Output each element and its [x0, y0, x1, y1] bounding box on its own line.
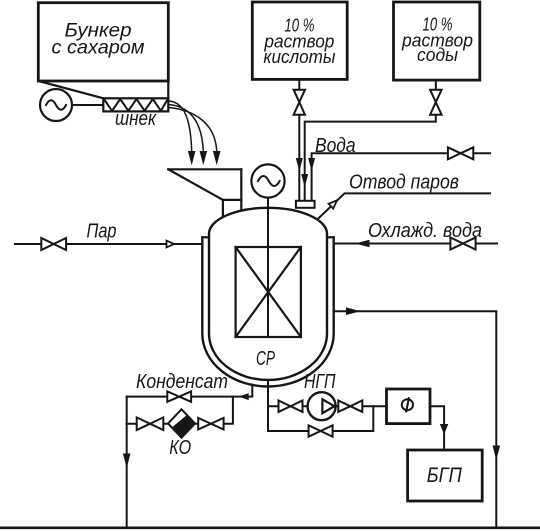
- stirrer (crossed frame): [236, 247, 301, 337]
- soda valve: [430, 90, 442, 115]
- feed nozzle on reactor head: [296, 201, 315, 208]
- feed funnel on reactor: [168, 169, 241, 217]
- condensate stub from jacket: [127, 385, 253, 397]
- jacket top cap left: [202, 236, 209, 238]
- label 10% раствор кислоты: [263, 15, 335, 67]
- sugar discharge stream 1: [169, 101, 196, 165]
- pump outlet valve: [338, 401, 362, 412]
- cooling water line (Охлажд. вода): [334, 243, 497, 245]
- stirrer shaft inside vessel: [267, 207, 269, 337]
- left drain down arrow: [123, 454, 131, 469]
- soda flow arrow: [301, 174, 308, 187]
- condensate flow arrow: [239, 393, 249, 400]
- bottom collector line: [0, 526, 540, 529]
- svg-text:Отвод паров: Отвод паров: [349, 172, 459, 194]
- motor M of screw conveyor: [40, 89, 103, 121]
- svg-text:Пар: Пар: [87, 221, 117, 243]
- jacket outlet line to right drain: [334, 311, 497, 528]
- svg-text:СР: СР: [256, 348, 275, 370]
- svg-text:НГП: НГП: [304, 371, 336, 393]
- acid valve: [294, 90, 305, 115]
- jacket outlet flow arrow: [346, 307, 361, 315]
- check valve КО: [168, 409, 195, 437]
- right drain down arrow: [493, 446, 501, 461]
- cooling water valve: [450, 238, 475, 250]
- soda feed line: [305, 80, 436, 202]
- screw conveyor (шнек): [103, 98, 168, 111]
- acid feed line: [298, 79, 300, 202]
- filter box ф: [387, 389, 431, 424]
- svg-text:БГП: БГП: [427, 464, 463, 487]
- reactor jacket: [202, 237, 333, 386]
- tank box БГП: [408, 450, 483, 501]
- left drain line to sewer: [126, 397, 128, 528]
- label Бункер с сахаром: [52, 21, 145, 59]
- water line (Вода): [312, 153, 490, 202]
- jacket top cap right: [327, 236, 334, 238]
- vapor flow arrow (open): [329, 200, 337, 208]
- stirrer drive motor on reactor: [251, 164, 284, 337]
- hopper box (Бункер с сахаром): [38, 3, 168, 99]
- arrow into БГП: [440, 424, 448, 435]
- svg-text:соды: соды: [417, 45, 458, 65]
- water valve: [448, 147, 473, 159]
- sugar discharge stream 3: [169, 108, 221, 166]
- condensate valve: [167, 391, 191, 401]
- pump inlet valve: [279, 401, 303, 412]
- cooling water flow arrow: [355, 240, 370, 248]
- water flow arrow: [308, 158, 315, 171]
- pump bypass line: [268, 406, 373, 431]
- svg-text:Охлажд. вода: Охлажд. вода: [368, 220, 482, 242]
- bypass valve: [309, 425, 333, 436]
- line filter to БГП: [430, 406, 444, 450]
- pump suction line: [268, 405, 387, 407]
- acid solution box: [252, 2, 347, 79]
- bypass branch valve right: [198, 418, 223, 430]
- steam valve: [41, 238, 66, 250]
- svg-text:Конденсат: Конденсат: [136, 371, 228, 393]
- condensate bypass branch: [127, 397, 233, 424]
- svg-text:шнек: шнек: [115, 108, 157, 130]
- bypass branch valve left: [137, 417, 164, 430]
- label 10% раствор соды: [401, 15, 473, 66]
- vapor outlet line (Отвод паров): [317, 193, 490, 219]
- steam flow arrow (open): [167, 241, 175, 248]
- acid flow arrow: [296, 158, 303, 171]
- svg-text:кислоты: кислоты: [263, 47, 335, 67]
- label ф (drawn phi glyph): [402, 397, 413, 412]
- svg-text:Вода: Вода: [315, 135, 356, 157]
- reactor vessel СР: [209, 208, 327, 380]
- reactor bottom drain pipe: [267, 380, 269, 431]
- svg-text:с сахаром: с сахаром: [52, 38, 145, 59]
- pump НГП: [308, 392, 336, 420]
- svg-text:КО: КО: [169, 437, 191, 459]
- steam line (Пар): [15, 243, 202, 245]
- sugar discharge stream 2: [169, 105, 207, 166]
- soda solution box: [394, 2, 480, 80]
